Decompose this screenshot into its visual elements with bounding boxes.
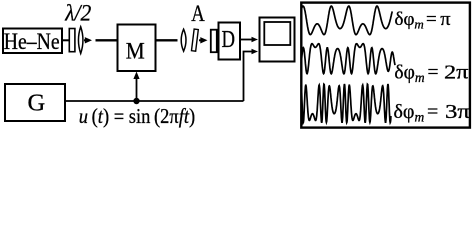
svg-text:M: M (126, 39, 145, 65)
waveform trace dphi=pi (301, 6, 392, 34)
modulator M box (118, 25, 156, 72)
generator G box (5, 84, 65, 121)
beam arrow 2 (199, 39, 201, 41)
detector window (211, 30, 217, 53)
svg-text:δφm=3π: δφm=3π (394, 101, 471, 125)
junction node (133, 98, 139, 104)
beam from M (157, 39, 178, 41)
waveform trace dphi=3pi (301, 84, 391, 123)
wire to modulator (96, 39, 118, 41)
analyzer tilted plate (191, 29, 198, 51)
beam arrow 1 (84, 39, 86, 41)
wire G to scope (vertical riser) (244, 52, 253, 102)
svg-text:λ/2: λ/2 (64, 0, 91, 26)
laser He-Ne box (3, 29, 62, 54)
svg-text:δφm=2π: δφm=2π (394, 62, 468, 85)
waveplate half-wave (69, 29, 75, 52)
wire laser to waveplate (62, 39, 69, 41)
svg-text:G: G (27, 90, 45, 117)
arrow junction to M (136, 77, 138, 102)
svg-text:A: A (191, 1, 205, 26)
svg-text:D: D (222, 27, 236, 53)
lens L2 (181, 29, 186, 51)
waveform trace dphi=2pi (301, 44, 395, 74)
detector D box (219, 23, 241, 60)
svg-text:He–Ne: He–Ne (4, 29, 60, 55)
oscilloscope box (260, 18, 295, 62)
waveform panel frame (301, 3, 470, 128)
oscilloscope screen (264, 22, 290, 45)
lens L1 (78, 27, 83, 54)
wire D to scope (240, 39, 253, 41)
svg-text:u (t) = sin (2πft): u (t) = sin (2πft) (79, 104, 195, 128)
wire G to riser (65, 100, 244, 102)
